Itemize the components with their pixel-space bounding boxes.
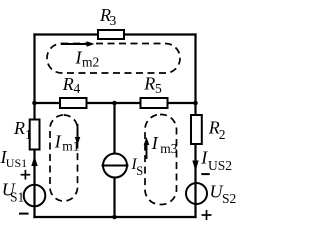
current source IS — [102, 154, 129, 178]
label Im2 — [75, 48, 100, 70]
resistor R5 — [141, 73, 168, 108]
junction node left-middle — [32, 101, 37, 106]
current arrow I_US1 — [31, 156, 37, 166]
svg-text:2: 2 — [219, 127, 226, 142]
svg-text:I: I — [151, 133, 159, 153]
label US1 — [2, 179, 24, 204]
svg-text:R: R — [62, 74, 74, 94]
mesh current loop Im3 — [145, 115, 177, 205]
voltage source US1 plus sign — [21, 170, 31, 180]
voltage source US1 — [24, 185, 46, 207]
wire bottom branch — [35, 216, 196, 218]
voltage source US2 plus sign — [202, 210, 212, 220]
wire left branch — [33, 35, 35, 218]
svg-text:S2: S2 — [222, 191, 236, 206]
resistor R3 — [98, 5, 124, 39]
label Im3 — [151, 133, 178, 156]
current arrow I_US2 — [192, 161, 198, 172]
svg-text:m1: m1 — [62, 138, 79, 153]
mesh current arrow Im2 — [61, 41, 95, 47]
label Im1 — [54, 132, 80, 154]
junction node right-middle — [193, 101, 198, 106]
label I_US2 — [200, 148, 232, 174]
svg-text:5: 5 — [155, 81, 162, 96]
mesh current loop Im1 — [50, 115, 78, 201]
mesh current arrow Im1 — [75, 124, 81, 145]
resistor R1 — [13, 118, 40, 150]
svg-text:US2: US2 — [208, 158, 232, 173]
label US2 — [210, 182, 237, 206]
svg-text:I: I — [54, 132, 62, 152]
svg-text:1: 1 — [25, 127, 32, 142]
svg-text:3: 3 — [110, 13, 117, 28]
svg-text:S: S — [136, 164, 143, 178]
svg-text:US1: US1 — [6, 156, 27, 170]
label IS — [131, 156, 144, 178]
svg-text:4: 4 — [74, 81, 81, 96]
mesh current arrow Im3 — [144, 137, 150, 159]
voltage source US1 minus sign — [19, 213, 29, 215]
label I_US1 — [0, 147, 27, 170]
mesh current loop Im2 — [47, 44, 180, 74]
voltage source US2 — [186, 183, 207, 204]
junction node center-bottom — [112, 215, 117, 220]
wire right branch — [194, 35, 196, 218]
resistor R4 — [60, 74, 87, 108]
resistor R2 — [191, 115, 226, 144]
wire center vertical branch — [113, 103, 115, 217]
svg-text:R: R — [13, 118, 25, 138]
wire middle horizontal branch — [35, 102, 196, 104]
wire top branch — [35, 33, 196, 35]
svg-text:m2: m2 — [82, 54, 99, 69]
junction node center-middle — [112, 101, 117, 106]
svg-text:m3: m3 — [160, 141, 178, 156]
svg-text:S1: S1 — [10, 190, 24, 205]
svg-text:R: R — [143, 73, 155, 93]
voltage source US2 minus sign — [201, 173, 209, 175]
